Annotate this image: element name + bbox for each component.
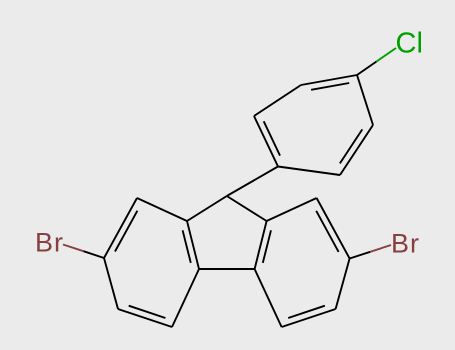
pentagon bottom bond C4a-C4b [199,268,255,270]
bond C9-ipso [227,167,278,197]
double bond C=D inner line [264,121,280,155]
svg-text:Br: Br [35,228,64,258]
bond C7-Br right [350,252,371,259]
double bond C8=C7 inner line [316,211,338,252]
double bond C1=C2 inner line [115,211,137,252]
double bond C8a=C4b inner line [263,230,271,263]
svg-text:Cl: Cl [396,28,423,60]
double bond A=B inner line [311,83,349,90]
double bond E=F inner line [340,129,362,163]
fluorene left ring [104,196,227,327]
svg-text:Br: Br [391,229,420,259]
chlorophenyl ring [254,75,373,175]
bond C2-Br left [84,251,105,258]
fluorene right ring [227,196,350,327]
double bond C9a=C4a inner line [183,230,191,263]
bond A-Cl [357,62,377,76]
double bond C3=C4 inner line [129,306,166,318]
double bond C6=C5 inner line [288,306,325,318]
